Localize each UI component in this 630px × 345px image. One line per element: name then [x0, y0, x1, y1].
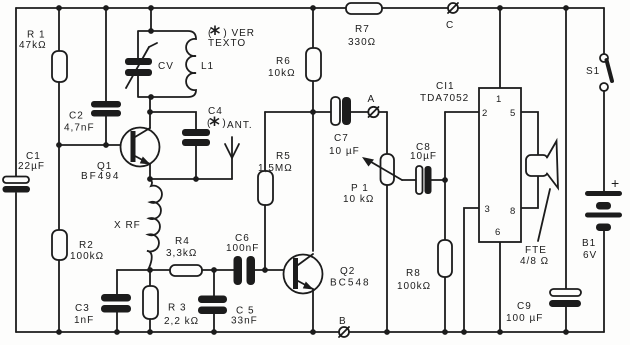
node dot pin1 top rail: [497, 5, 503, 11]
node dot P1 bottom: [384, 329, 390, 335]
svg-text:R2: R2: [79, 240, 94, 251]
svg-text:C7: C7: [334, 133, 349, 144]
svg-text:10 µF: 10 µF: [329, 146, 360, 157]
node dot C2 top rail: [103, 5, 109, 11]
svg-text:TDA7052: TDA7052: [420, 93, 469, 104]
resistor R6: [306, 8, 321, 251]
potentiometer P1: [362, 112, 402, 332]
node dot base R1R2: [56, 142, 62, 148]
wire IC pin6: [499, 242, 501, 332]
svg-text:S1: S1: [586, 66, 600, 77]
label C7: [329, 133, 360, 157]
antenna ANT: [225, 137, 239, 179]
node dot pin6 bottom: [497, 329, 503, 335]
node dot R8 bottom: [442, 329, 448, 335]
svg-text:R6: R6: [276, 56, 291, 67]
svg-text:+: +: [611, 175, 619, 191]
svg-text:100kΩ: 100kΩ: [397, 281, 431, 292]
resistor R5: [258, 112, 273, 270]
wire C4 branch: [150, 112, 196, 129]
svg-text:C4: C4: [208, 106, 223, 117]
svg-text:ANT.: ANT.: [227, 120, 253, 131]
battery B1: [585, 191, 622, 332]
wire bottom rail left segment: [16, 331, 339, 333]
label R1: [19, 30, 47, 52]
label R8: [397, 268, 431, 292]
inductor L1 tank loop: [138, 31, 196, 97]
capacitor C4: [182, 129, 210, 179]
svg-text:B: B: [339, 316, 347, 327]
node dot R2 bottom: [56, 329, 62, 335]
label C8: [410, 142, 437, 162]
wire top rail left segment: [16, 7, 347, 9]
svg-text:2,2 kΩ: 2,2 kΩ: [164, 316, 199, 327]
inductor XRF choke: [147, 179, 162, 268]
svg-text:4,7nF: 4,7nF: [64, 123, 95, 134]
wire IC pin3: [464, 208, 479, 332]
resistor R2: [52, 145, 67, 332]
svg-text:5: 5: [510, 108, 515, 119]
svg-text:47kΩ: 47kΩ: [19, 40, 47, 51]
wire Q1 base: [59, 144, 131, 146]
label B1: [582, 238, 597, 261]
node dot C5 junction: [211, 267, 217, 273]
svg-text:P 1: P 1: [351, 183, 369, 194]
wire collector row: [265, 111, 331, 113]
node dot XRF bottom: [147, 267, 153, 273]
node dot tank bottom wire: [148, 94, 154, 100]
wire top rail right segment: [458, 7, 604, 9]
resistor R7: [346, 3, 382, 14]
svg-text:1nF: 1nF: [74, 315, 94, 326]
svg-text:X RF: X RF: [114, 220, 141, 231]
svg-text:C2: C2: [69, 111, 84, 122]
label R3: [164, 303, 199, 328]
label R5: [258, 151, 293, 174]
svg-text:10 kΩ: 10 kΩ: [343, 194, 374, 205]
svg-text:B1: B1: [582, 238, 596, 249]
resistor R1: [52, 8, 67, 145]
terminal C: [448, 3, 458, 13]
star symbol C4: [210, 117, 219, 127]
label C5: [231, 306, 258, 327]
switch S1: [600, 8, 612, 191]
label R6: [268, 56, 296, 79]
wire IC pin2: [445, 111, 479, 113]
label VER TEXTO: [208, 28, 255, 49]
svg-text:3,3kΩ: 3,3kΩ: [166, 248, 197, 259]
svg-text:6V: 6V: [583, 250, 597, 261]
resistor R4: [170, 265, 234, 276]
node dot collector C4 junction: [147, 109, 153, 115]
node dot R6 top rail: [310, 5, 316, 11]
svg-text:R4: R4: [175, 236, 190, 247]
wire left rail lower: [15, 193, 17, 332]
svg-text:6: 6: [495, 227, 500, 238]
label R2: [70, 240, 104, 262]
capacitor C9: [549, 8, 581, 332]
wire left rail upper: [15, 8, 17, 177]
transistor Q1: [121, 112, 160, 179]
label R4: [166, 236, 197, 259]
svg-text:10µF: 10µF: [410, 151, 437, 162]
node dot R5 base junction: [262, 267, 268, 273]
capacitor C1: [3, 177, 31, 193]
wire emitter run: [150, 178, 232, 180]
node dot R6 collector: [310, 109, 316, 115]
wire collector to tank: [149, 97, 151, 112]
svg-text:BC548: BC548: [330, 278, 371, 289]
label Q2: [330, 266, 371, 289]
node dot tank top wire: [148, 28, 154, 34]
resistor R3: [143, 270, 158, 332]
node dot R1 top rail: [56, 5, 62, 11]
svg-text:8: 8: [510, 206, 515, 217]
svg-text:R 1: R 1: [27, 30, 46, 41]
svg-text:330Ω: 330Ω: [348, 37, 376, 48]
node dot base C2: [103, 142, 109, 148]
svg-text:10kΩ: 10kΩ: [268, 68, 296, 79]
speaker FTE: [526, 141, 558, 241]
op-amp U1 IC CI1 TDA7052 box: [479, 88, 521, 242]
label C2: [64, 111, 95, 134]
node dot Q2 emitter bottom: [310, 329, 316, 335]
svg-text:1: 1: [496, 94, 501, 105]
svg-text:2: 2: [482, 108, 487, 119]
label R7: [348, 24, 376, 48]
capacitor C3: [101, 270, 131, 332]
svg-text:1,5MΩ: 1,5MΩ: [258, 163, 293, 174]
wire R4 row left: [117, 269, 170, 271]
svg-text:L1: L1: [201, 61, 214, 72]
capacitor C7: [331, 97, 368, 125]
svg-text:R7: R7: [355, 24, 370, 35]
capacitor C2: [91, 8, 121, 145]
label C4: [207, 106, 227, 129]
wire IC pin5 pin8 speaker loop: [521, 112, 538, 208]
svg-text:Q2: Q2: [340, 266, 355, 277]
label C3: [74, 303, 94, 326]
node dot R3 bottom: [147, 329, 153, 335]
label CI1: [420, 81, 469, 104]
terminal B: [339, 327, 349, 337]
svg-text:R5: R5: [276, 151, 291, 162]
svg-text:C9: C9: [517, 301, 532, 312]
svg-text:4/8 Ω: 4/8 Ω: [520, 256, 549, 267]
svg-text:BF494: BF494: [81, 171, 120, 182]
label FTE: [520, 245, 549, 267]
terminal A: [368, 107, 387, 117]
star symbol note top: [211, 26, 220, 36]
wire tank top drop: [150, 8, 152, 31]
svg-text:R8: R8: [406, 268, 421, 279]
node dot C8 R8: [442, 177, 448, 183]
label C6: [226, 233, 259, 254]
capacitor C8: [402, 166, 445, 194]
node dot C4 bottom: [193, 176, 199, 182]
svg-text:TEXTO: TEXTO: [208, 38, 246, 49]
node dot tank top rail: [148, 5, 154, 11]
svg-text:FTE: FTE: [525, 245, 547, 256]
resistor R8: [438, 112, 452, 332]
node dot pin3 bottom: [461, 329, 467, 335]
svg-text:C3: C3: [75, 303, 90, 314]
svg-text:3: 3: [485, 204, 490, 215]
transistor Q2: [284, 254, 323, 332]
svg-text:22µF: 22µF: [18, 161, 45, 172]
svg-text:33nF: 33nF: [231, 316, 258, 327]
wire top rail middle segment: [381, 7, 448, 9]
label P1: [343, 183, 374, 205]
svg-text:100 µF: 100 µF: [506, 313, 543, 324]
label C9: [506, 301, 543, 324]
svg-text:CI1: CI1: [436, 81, 455, 92]
svg-text:C: C: [446, 20, 454, 31]
node dot C3 bottom: [114, 329, 120, 335]
svg-text:A: A: [368, 94, 376, 105]
capacitor C5: [198, 270, 227, 332]
variable capacitor CV: [125, 43, 157, 88]
wire bottom rail right segment: [349, 331, 604, 333]
svg-text:CV: CV: [158, 61, 174, 72]
node dot emitter: [147, 176, 153, 182]
node dot C5 bottom: [211, 329, 217, 335]
label Q1: [81, 161, 120, 182]
svg-text:100kΩ: 100kΩ: [70, 251, 104, 262]
node dot C9 top rail: [563, 5, 569, 11]
label C1: [18, 151, 45, 172]
wire IC pin1: [499, 8, 501, 88]
svg-text:100nF: 100nF: [226, 243, 259, 254]
svg-text:R 3: R 3: [168, 303, 187, 314]
node dot C9 bottom: [563, 329, 569, 335]
capacitor C6: [234, 256, 294, 285]
